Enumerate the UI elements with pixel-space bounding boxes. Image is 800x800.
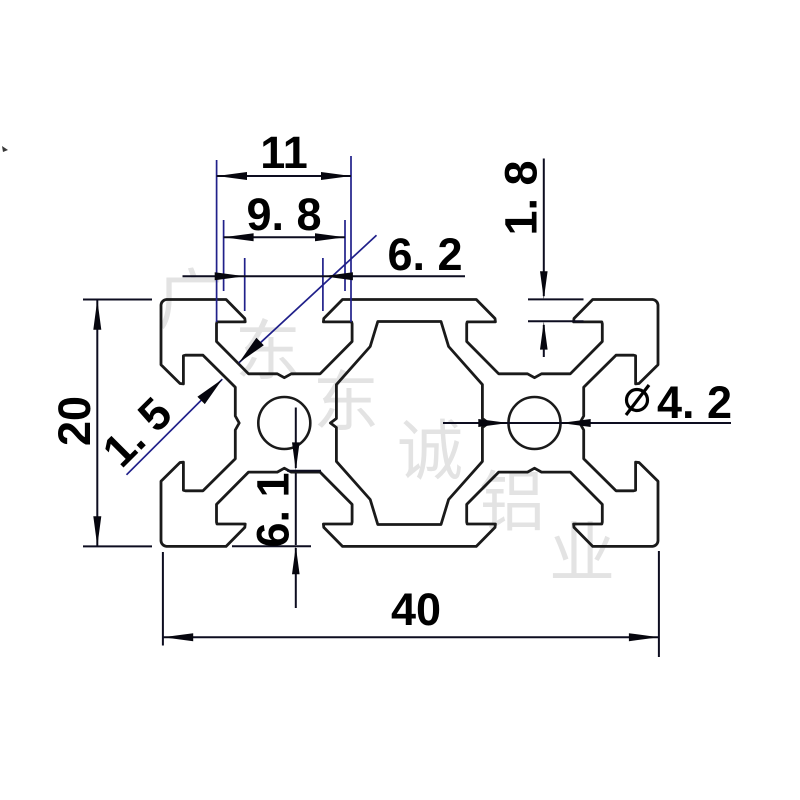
- profile outer outline with 6 T-slots: [161, 300, 658, 547]
- svg-text:铝: 铝: [479, 465, 545, 539]
- svg-text:东: 东: [313, 365, 379, 439]
- svg-text:诚: 诚: [397, 414, 463, 488]
- svg-text:1. 8: 1. 8: [496, 160, 547, 235]
- hole right (dia 4.2): [509, 397, 561, 449]
- svg-text:业: 业: [549, 516, 615, 590]
- svg-text:东: 东: [235, 314, 301, 388]
- arrowheads: [93, 172, 659, 641]
- svg-text:20: 20: [49, 396, 100, 446]
- small corner mark: [2, 146, 8, 152]
- svg-text:4. 2: 4. 2: [657, 377, 732, 428]
- svg-text:9. 8: 9. 8: [246, 189, 321, 240]
- svg-text:1. 5: 1. 5: [92, 387, 181, 476]
- extension lines (blue): [127, 156, 377, 475]
- watermark: gray diagonal company name: [157, 263, 615, 590]
- central octagonal cavity: [330, 322, 488, 525]
- hole left (dia 4.2): [258, 397, 310, 449]
- diameter symbol: [626, 385, 649, 415]
- svg-text:6. 2: 6. 2: [387, 229, 462, 280]
- dimension lines: [83, 159, 731, 658]
- svg-text:6. 1: 6. 1: [248, 472, 299, 547]
- svg-text:40: 40: [391, 584, 441, 635]
- svg-text:11: 11: [260, 127, 308, 178]
